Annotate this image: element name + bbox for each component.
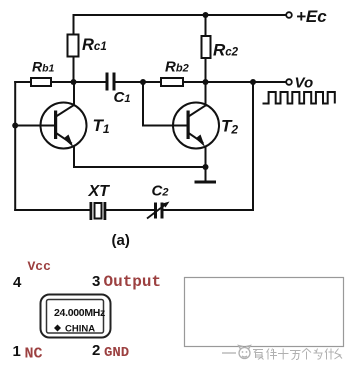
svg-text:GND: GND <box>104 345 129 361</box>
svg-text:NC: NC <box>25 346 43 363</box>
svg-text:(a): (a) <box>112 232 130 249</box>
svg-text:Vcc: Vcc <box>28 259 52 274</box>
svg-text:Output: Output <box>104 273 162 291</box>
svg-text:Vo: Vo <box>295 75 314 92</box>
svg-text:4: 4 <box>13 274 22 291</box>
svg-text:1: 1 <box>13 343 21 360</box>
svg-text:+Ec: +Ec <box>296 7 327 26</box>
svg-text:XT: XT <box>88 183 111 200</box>
svg-text:2: 2 <box>92 342 100 359</box>
svg-text:CHINA: CHINA <box>65 324 95 335</box>
svg-text:3: 3 <box>92 273 100 290</box>
svg-text:24.000MHz: 24.000MHz <box>54 307 105 319</box>
